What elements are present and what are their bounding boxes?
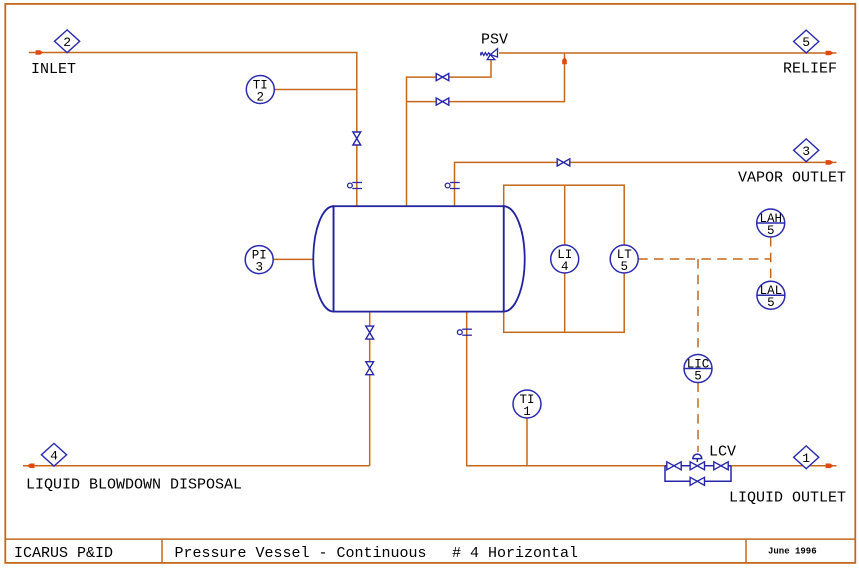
svg-text:5: 5 <box>694 370 702 384</box>
svg-text:3: 3 <box>802 144 810 159</box>
svg-text:1: 1 <box>523 405 531 419</box>
svg-text:2: 2 <box>257 91 265 105</box>
svg-text:PSV: PSV <box>481 32 508 49</box>
svg-text:ICARUS P&ID: ICARUS P&ID <box>14 545 113 562</box>
svg-text:5: 5 <box>620 260 628 274</box>
svg-text:LIQUID BLOWDOWN DISPOSAL: LIQUID BLOWDOWN DISPOSAL <box>26 477 242 494</box>
svg-text:1: 1 <box>802 451 810 466</box>
svg-text:# 4 Horizontal: # 4 Horizontal <box>452 545 578 562</box>
svg-text:5: 5 <box>767 224 775 238</box>
svg-text:5: 5 <box>802 35 810 50</box>
svg-text:June 1996: June 1996 <box>768 547 817 557</box>
svg-text:VAPOR OUTLET: VAPOR OUTLET <box>738 170 846 187</box>
svg-text:Pressure Vessel - Continuous: Pressure Vessel - Continuous <box>175 545 427 562</box>
svg-text:5: 5 <box>767 296 775 310</box>
svg-text:2: 2 <box>63 35 71 50</box>
svg-text:RELIEF: RELIEF <box>783 61 837 78</box>
svg-text:4: 4 <box>561 260 569 274</box>
svg-text:INLET: INLET <box>31 61 76 78</box>
svg-text:4: 4 <box>50 448 58 463</box>
svg-text:LCV: LCV <box>709 444 736 461</box>
svg-text:3: 3 <box>255 261 263 275</box>
svg-text:LIQUID OUTLET: LIQUID OUTLET <box>729 490 846 507</box>
